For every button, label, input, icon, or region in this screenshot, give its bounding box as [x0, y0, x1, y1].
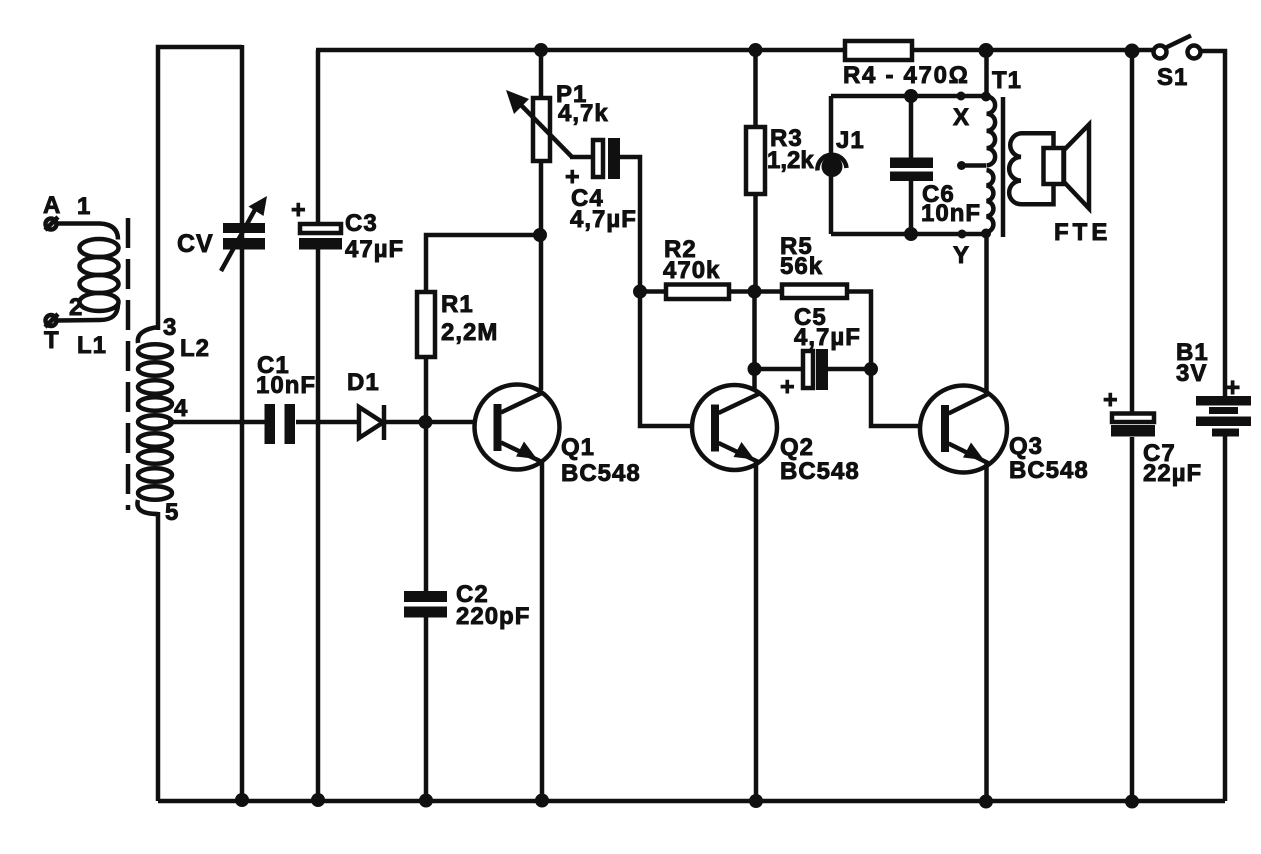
- svg-text:10nF: 10nF: [921, 200, 981, 227]
- svg-text:5: 5: [165, 499, 179, 526]
- jack J1: [817, 155, 846, 177]
- node: D1/R1 junction: [419, 415, 433, 429]
- transformer T1 secondary winding: [1009, 133, 1053, 204]
- svg-text:T1: T1: [992, 67, 1022, 94]
- transistor Q2: [692, 385, 777, 470]
- svg-text:56k: 56k: [780, 253, 823, 280]
- svg-text:4,7µF: 4,7µF: [794, 324, 861, 351]
- wire: Q2 collector vertical: [752, 292, 757, 391]
- variable capacitor CV: [221, 196, 267, 271]
- svg-text:C3: C3: [345, 210, 378, 237]
- svg-text:X: X: [953, 104, 970, 131]
- node: ground junction at C3: [311, 793, 325, 807]
- node: R2/R3/R5 junction: [748, 285, 762, 299]
- svg-text:CV: CV: [177, 230, 214, 258]
- transformer T1 primary winding: [981, 92, 995, 239]
- node: rail junction at C7: [1125, 44, 1140, 59]
- wire: R2 right lead to junction: [729, 289, 782, 294]
- wire: CV vertical branch: [240, 45, 245, 801]
- svg-text:47µF: 47µF: [345, 236, 404, 263]
- speaker FTE: [1044, 125, 1090, 209]
- node Y terminal dot: [958, 230, 967, 239]
- transistor Q3: [920, 386, 1007, 473]
- svg-text:R4 - 470Ω: R4 - 470Ω: [843, 62, 970, 89]
- svg-text:Q3: Q3: [1009, 433, 1043, 460]
- terminal A: [45, 217, 58, 230]
- transistor Q1: [475, 385, 560, 470]
- transformer T1 core: [1001, 97, 1006, 237]
- svg-text:Q2: Q2: [780, 434, 814, 461]
- svg-text:1: 1: [77, 193, 91, 220]
- capacitor C5 (electrolytic): [803, 349, 828, 390]
- node: T1 center tap with stub: [957, 161, 986, 170]
- svg-text:R1: R1: [441, 291, 474, 318]
- svg-text:+: +: [1225, 372, 1241, 402]
- wire: C3 vertical branch upper: [316, 50, 321, 224]
- inductor L1: [57, 239, 119, 321]
- svg-text:1,2k: 1,2k: [767, 147, 814, 174]
- resistor R4: [845, 41, 912, 60]
- node: rail junction at T1: [979, 43, 994, 58]
- wire: C1 to D1: [296, 420, 359, 425]
- svg-text:FTE: FTE: [1054, 219, 1111, 246]
- wire: L2 bottom segment to ground rail: [156, 512, 161, 801]
- wire: J1/C6 box left side: [829, 96, 834, 234]
- svg-text:Y: Y: [953, 242, 970, 269]
- wire: bottom ground rail: [158, 799, 1225, 804]
- wire: J1/C6 box bottom: [831, 232, 986, 237]
- node: C6 top junction: [904, 89, 918, 103]
- wire: C5 right lead: [828, 367, 871, 372]
- wire: battery to bottom-right corner: [1223, 435, 1228, 801]
- potentiometer P1: [506, 90, 572, 161]
- svg-text:BC548: BC548: [780, 458, 860, 485]
- svg-text:BC548: BC548: [561, 460, 641, 487]
- diode D1: [359, 405, 384, 440]
- wire: P1 wiper to C4: [570, 155, 594, 160]
- wire: L2 tap4 to C1: [168, 420, 265, 425]
- svg-text:2,2M: 2,2M: [441, 319, 498, 346]
- resistor R5: [782, 285, 847, 299]
- svg-text:+: +: [291, 196, 307, 224]
- svg-text:+: +: [1103, 386, 1119, 414]
- svg-text:4: 4: [174, 395, 188, 422]
- svg-text:S1: S1: [1157, 64, 1188, 91]
- svg-text:L1: L1: [77, 332, 107, 359]
- wire: top rail from S1 to right corner, down to battery: [1200, 51, 1225, 397]
- wire: top-left loop from L2 top to CV top: [158, 47, 242, 330]
- wire: R5 right to Q3 base: [847, 292, 944, 427]
- wire: T1 primary top lead from rail: [984, 50, 989, 97]
- wire: C7 vertical branch: [1130, 50, 1135, 801]
- node: ground junction at C2: [419, 794, 433, 808]
- node: rail junction at P1: [534, 43, 548, 57]
- node: C6 bottom junction: [904, 227, 918, 241]
- wire: R3 vertical: [753, 50, 758, 291]
- wire: top rail between R4 and S1: [912, 48, 1154, 53]
- svg-text:2: 2: [69, 294, 83, 321]
- node: C5 right junction: [864, 362, 878, 376]
- wire: main top supply rail left of R4: [316, 48, 845, 53]
- svg-text:10nF: 10nF: [256, 372, 316, 399]
- svg-text:3V: 3V: [1176, 360, 1207, 387]
- wire: C2 branch vertical: [424, 422, 429, 801]
- wire: D1 to Q1 base: [384, 420, 496, 425]
- svg-text:22µF: 22µF: [1143, 460, 1202, 487]
- wire: C4 down to Q2 base: [620, 157, 713, 426]
- wire: Q1 emitter to ground: [540, 460, 545, 801]
- node: ground junction at Q2 emitter: [749, 794, 763, 808]
- wire: Q3 collector up to T1: [984, 234, 989, 392]
- svg-text:J1: J1: [836, 127, 865, 154]
- capacitor C1: [265, 404, 296, 444]
- wire: terminal A to L1: [57, 224, 118, 240]
- svg-text:T: T: [44, 327, 60, 354]
- node: ground junction at Q3 emitter: [979, 795, 993, 809]
- svg-text:A: A: [43, 192, 61, 219]
- resistor R3: [746, 127, 765, 194]
- svg-text:Q1: Q1: [561, 434, 595, 461]
- wire: C6 vertical stem: [909, 96, 914, 234]
- capacitor C7 (electrolytic): [1111, 414, 1155, 437]
- svg-text:3: 3: [163, 314, 177, 341]
- node: R1 top junction on P1 line: [533, 228, 547, 242]
- node: C5 left junction: [748, 362, 762, 376]
- wire: J1/C6 box top: [831, 94, 986, 99]
- svg-text:4,7k: 4,7k: [558, 100, 609, 127]
- node: ground junction at C7 bottom: [1125, 795, 1139, 809]
- wire: R2 left lead: [640, 289, 666, 294]
- node: ground junction at CV: [235, 793, 249, 807]
- node: rail junction at R3: [749, 43, 763, 57]
- node: R2 left junction: [633, 285, 647, 299]
- svg-text:L2: L2: [180, 335, 210, 362]
- svg-text:+: +: [780, 373, 796, 401]
- wire: C5 left lead: [755, 367, 804, 372]
- capacitor C3 (electrolytic): [299, 224, 342, 250]
- node X terminal dot: [957, 92, 966, 101]
- wire: Q3 emitter to ground: [984, 461, 989, 801]
- inductor L2: [137, 327, 172, 514]
- wire: R1 vertical with top link to P1 line: [424, 357, 429, 422]
- svg-text:D1: D1: [347, 369, 380, 396]
- terminal T: [45, 314, 58, 327]
- wire: C3 vertical branch lower: [316, 249, 321, 801]
- wire: P1 / Q1 collector vertical: [539, 50, 544, 390]
- svg-text:470k: 470k: [663, 257, 720, 284]
- capacitor C4 (electrolytic): [593, 138, 620, 179]
- capacitor C6: [890, 158, 933, 182]
- resistor R1: [417, 292, 435, 357]
- resistor R2: [666, 285, 729, 300]
- capacitor C2: [404, 591, 447, 618]
- node: ground junction at Q1 emitter: [535, 794, 549, 808]
- switch S1: [1154, 36, 1201, 59]
- svg-text:220pF: 220pF: [456, 603, 530, 630]
- dashed coupling line between L1 and L2: [126, 218, 131, 510]
- battery B1: [1196, 396, 1251, 437]
- wire: Q2 emitter to ground: [754, 461, 759, 801]
- svg-text:4,7µF: 4,7µF: [570, 206, 637, 233]
- svg-text:BC548: BC548: [1009, 457, 1089, 484]
